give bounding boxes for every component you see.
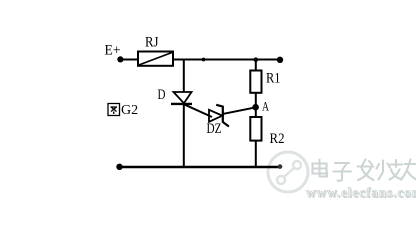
node E+ terminal dot [117,56,123,62]
wire DZ to node A [224,107,257,114]
svg-text:RJ: RJ [145,35,159,51]
zener diode DZ (pointing right) [209,110,222,122]
watermark logo circle (faint) [268,152,308,192]
wire E+ dot to RJ [120,59,138,61]
label 图G2 (图 drawn as vector strokes) [108,104,120,116]
RJ diagonal [139,52,173,65]
wire RJ to top-right terminal [173,59,281,61]
wire diode D down to bottom rail [183,104,185,167]
svg-text:R1: R1 [266,71,281,87]
junction dot (small) on top wire [202,58,206,62]
watermark text 电子发烧友 (faint, drawn as vector strokes) [313,160,416,181]
diode D (cathode down) [174,92,192,103]
svg-text:DZ: DZ [207,121,222,137]
junction dot at R1 branch [254,57,259,62]
DZ cathode bar with hooks [216,105,229,127]
svg-text:E+: E+ [105,43,121,59]
resistor R2 [250,117,261,141]
svg-text:A: A [262,99,269,114]
烧 [377,160,403,180]
子 [334,163,352,181]
wire R1 to node A [255,93,257,107]
relay coil RJ (rectangle with diagonal) [138,52,173,66]
发 [358,160,374,181]
svg-text:R2: R2 [270,131,285,147]
bottom-right terminal dot [278,164,283,169]
resistor R1 [250,71,261,93]
友 [401,160,416,181]
wire node A to R2 [255,107,257,118]
svg-text:www.elecfans.com: www.elecfans.com [306,185,416,200]
wire R2 to bottom rail [255,141,257,167]
wire diagonal D to DZ [184,104,212,117]
node A dot [252,104,259,111]
svg-text:D: D [158,87,166,103]
电 [313,160,328,177]
svg-text:G2: G2 [121,103,138,118]
diode D cathode bar [171,103,192,105]
wire top rail down to diode D [183,60,185,93]
bottom rail wire [119,166,280,168]
wire top rail to R1 [255,60,257,72]
bottom-left terminal dot [116,164,122,170]
top-right terminal dot [277,57,283,63]
